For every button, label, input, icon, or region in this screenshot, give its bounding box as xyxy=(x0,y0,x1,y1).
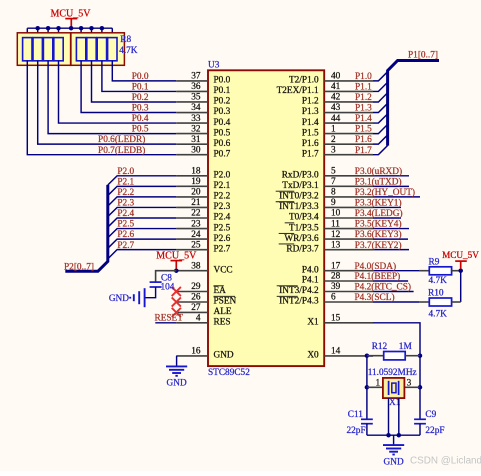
wire net P3.1 xyxy=(373,185,409,187)
wire net P3.5 xyxy=(373,228,409,230)
svg-text:RES: RES xyxy=(214,318,231,328)
svg-text:41: 41 xyxy=(331,82,341,92)
svg-text:33: 33 xyxy=(191,114,201,124)
wire net P2.4 with bus entry xyxy=(108,218,177,227)
wire GND pin to ground xyxy=(176,356,178,366)
pin 8 stub xyxy=(324,196,373,198)
svg-text:P1.1: P1.1 xyxy=(355,83,372,93)
wire net P0.3 xyxy=(81,61,176,113)
svg-text:R8: R8 xyxy=(120,35,131,45)
svg-text:P2.4: P2.4 xyxy=(117,209,134,219)
wire net P2.6 with bus entry xyxy=(108,239,177,248)
junction xyxy=(89,26,94,31)
pin 21 stub xyxy=(176,206,208,208)
svg-text:P0.6(LEDR): P0.6(LEDR) xyxy=(98,134,145,145)
wire (rail to RP element 8) xyxy=(111,28,113,37)
pin 42 stub xyxy=(324,101,373,103)
wire (pull-up bus top rail) xyxy=(27,27,112,29)
resistor R9 xyxy=(429,267,451,275)
pin 17 stub xyxy=(324,270,373,272)
pin 35 stub xyxy=(176,101,208,103)
svg-text:GND: GND xyxy=(109,294,129,304)
svg-text:21: 21 xyxy=(191,198,201,208)
svg-text:19: 19 xyxy=(191,177,201,187)
svg-text:11: 11 xyxy=(331,219,340,229)
svg-text:31: 31 xyxy=(191,135,201,145)
pin 44 stub xyxy=(324,122,373,124)
svg-text:STC89C52: STC89C52 xyxy=(208,368,250,378)
svg-text:9: 9 xyxy=(331,198,336,208)
svg-text:P1.6: P1.6 xyxy=(355,135,372,145)
wire (rail to RP element 2) xyxy=(37,28,39,37)
svg-text:P0.4: P0.4 xyxy=(132,114,149,124)
svg-text:RD/P3.7: RD/P3.7 xyxy=(286,244,319,254)
wire crystal case pin right xyxy=(398,398,400,435)
svg-text:P3.3(KEY1): P3.3(KEY1) xyxy=(355,198,402,209)
junction xyxy=(79,26,84,31)
wire net P1.0 with bus entry xyxy=(373,72,388,81)
junction (case pin left) xyxy=(386,433,391,438)
wire net P2.0 with bus entry xyxy=(108,176,177,185)
svg-text:P4.2(RTC_CS): P4.2(RTC_CS) xyxy=(355,282,412,293)
svg-text:P4.1(BEEP): P4.1(BEEP) xyxy=(355,271,401,282)
wire net P4.0(SDA) xyxy=(373,270,419,272)
svg-text:T2EX/P1.1: T2EX/P1.1 xyxy=(277,86,319,96)
wire net P1.4 with bus entry xyxy=(373,114,388,123)
svg-text:104: 104 xyxy=(161,283,175,293)
pin 39 stub xyxy=(324,291,373,293)
capacitor C11 xyxy=(361,419,373,423)
pin 2 stub xyxy=(324,143,373,145)
svg-text:36: 36 xyxy=(191,82,201,92)
pin 6 stub xyxy=(324,301,373,303)
svg-text:P0.4: P0.4 xyxy=(214,118,231,128)
svg-text:23: 23 xyxy=(191,219,201,229)
svg-text:42: 42 xyxy=(331,93,341,103)
power MCU_5V (top left) xyxy=(50,9,91,27)
pin 29 stub xyxy=(176,291,208,293)
svg-text:P3.6(KEY3): P3.6(KEY3) xyxy=(355,229,402,240)
pin 22 stub xyxy=(176,217,208,219)
wire VCC to C8 xyxy=(156,271,177,282)
ground GND (crystal) xyxy=(383,445,404,467)
svg-text:22pF: 22pF xyxy=(425,426,444,436)
svg-text:P3.4(LEDG): P3.4(LEDG) xyxy=(355,208,403,219)
svg-text:P2.5: P2.5 xyxy=(117,220,134,230)
wire net P2.3 with bus entry xyxy=(108,207,177,216)
pin 31 stub xyxy=(176,143,208,145)
junction xyxy=(56,26,61,31)
svg-text:27: 27 xyxy=(191,303,201,313)
svg-text:30: 30 xyxy=(191,145,201,155)
svg-text:P3.0(uRXD): P3.0(uRXD) xyxy=(355,166,402,177)
svg-text:16: 16 xyxy=(191,347,201,357)
pin 30 stub xyxy=(176,154,208,156)
svg-text:P0.1: P0.1 xyxy=(214,86,231,96)
svg-text:P1.2: P1.2 xyxy=(355,93,372,103)
ground GND (below chip) xyxy=(166,366,187,388)
pin 38 stub xyxy=(176,270,208,272)
pin 25 stub xyxy=(176,249,208,251)
bus P1[0..7] xyxy=(388,61,439,146)
svg-text:P1.5: P1.5 xyxy=(355,125,372,135)
svg-text:26: 26 xyxy=(191,293,201,303)
svg-text:P4.1: P4.1 xyxy=(302,276,319,286)
svg-text:5: 5 xyxy=(331,167,336,177)
wire net P3.6 xyxy=(373,238,408,240)
svg-text:P1.5: P1.5 xyxy=(302,128,319,138)
svg-text:29: 29 xyxy=(191,282,201,292)
junction (X1 node) xyxy=(418,353,423,358)
resistor R8 element 2 xyxy=(33,38,42,61)
lead R10 left xyxy=(419,301,429,303)
pin 7 stub xyxy=(324,185,373,187)
svg-text:P1.3: P1.3 xyxy=(302,107,319,117)
svg-text:P2.5: P2.5 xyxy=(214,223,231,233)
svg-text:T0/P3.4: T0/P3.4 xyxy=(289,213,319,223)
wire C8 to GND xyxy=(145,287,156,297)
pin 41 stub xyxy=(324,90,373,92)
wire X0 node down xyxy=(366,356,368,388)
svg-text:15: 15 xyxy=(331,314,341,324)
pin 5 stub xyxy=(324,175,373,177)
svg-text:VCC: VCC xyxy=(214,265,233,275)
svg-text:2: 2 xyxy=(331,135,336,145)
wire net P1.5 with bus entry xyxy=(373,124,388,133)
lead crystal pin 1 xyxy=(367,386,383,388)
wire crystal case pin left xyxy=(388,398,390,435)
svg-text:P3.1(uTXD): P3.1(uTXD) xyxy=(355,176,402,187)
svg-text:1: 1 xyxy=(376,378,381,388)
svg-text:11.0592MHz: 11.0592MHz xyxy=(368,368,417,378)
svg-text:P1.7: P1.7 xyxy=(355,146,372,156)
wire net P4.1(BEEP) xyxy=(373,280,408,282)
svg-text:1M: 1M xyxy=(399,342,412,352)
wire net P0.0 xyxy=(112,61,176,81)
svg-text:P0.6: P0.6 xyxy=(214,139,231,149)
wire X1 node down xyxy=(419,356,421,388)
lead crystal pin 3 xyxy=(404,386,420,388)
pin 14 stub xyxy=(324,355,373,357)
svg-text:28: 28 xyxy=(331,272,341,282)
svg-text:38: 38 xyxy=(191,261,201,271)
svg-text:P3.2(HY_OUT): P3.2(HY_OUT) xyxy=(355,187,415,198)
svg-text:P2.0: P2.0 xyxy=(214,171,231,181)
wire (rail to RP element 4) xyxy=(58,28,60,37)
svg-text:GND: GND xyxy=(214,351,234,361)
ground GND (sideways, at C8) xyxy=(109,288,145,307)
pin 37 stub xyxy=(176,80,208,82)
pin 4 stub xyxy=(176,322,208,324)
wire net P2.5 with bus entry xyxy=(108,229,177,238)
junction (VCC node) xyxy=(174,268,179,273)
wire X1 node to C9 xyxy=(419,387,421,419)
wire net P3.0 xyxy=(373,175,409,177)
svg-text:U3: U3 xyxy=(208,60,220,70)
pin 16 stub xyxy=(176,355,208,357)
pin 24 stub xyxy=(176,238,208,240)
wire X1 pin to crystal right node xyxy=(373,323,420,356)
junction (case pin right) xyxy=(397,433,402,438)
svg-text:P2.6: P2.6 xyxy=(117,230,134,240)
svg-text:P0.5: P0.5 xyxy=(132,125,149,135)
svg-text:P3.7(KEY2): P3.7(KEY2) xyxy=(355,240,402,251)
svg-text:P3.5(KEY4): P3.5(KEY4) xyxy=(355,219,402,230)
junction xyxy=(35,26,40,31)
wire net P1.7 with bus entry xyxy=(373,145,388,154)
wire (rail to RP element 7) xyxy=(101,28,103,37)
capacitor C8 xyxy=(150,282,162,287)
svg-text:T2/P1.0: T2/P1.0 xyxy=(289,76,319,86)
junction (X0 node) xyxy=(365,353,370,358)
pin 20 stub xyxy=(176,196,208,198)
pin 15 stub xyxy=(324,322,373,324)
svg-text:P0.0: P0.0 xyxy=(214,76,231,86)
svg-text:10: 10 xyxy=(331,209,341,219)
svg-text:35: 35 xyxy=(191,93,201,103)
svg-text:WR/P3.6: WR/P3.6 xyxy=(284,234,319,244)
resistor R10 xyxy=(429,298,451,306)
no-ERC marker X xyxy=(172,297,181,306)
wire X0 node to C11 xyxy=(366,387,368,419)
pin 12 stub xyxy=(324,238,373,240)
wire net P0.2 xyxy=(92,61,177,102)
wire C11 to rail xyxy=(366,424,368,436)
wire net P3.3 xyxy=(373,206,401,208)
svg-text:4: 4 xyxy=(196,314,201,324)
svg-text:P0.2: P0.2 xyxy=(214,97,231,107)
junction xyxy=(46,26,51,31)
resistor R8 element 3 xyxy=(43,38,52,61)
wire net P3.2 xyxy=(373,196,420,198)
svg-text:1: 1 xyxy=(331,124,336,134)
svg-text:4.7K: 4.7K xyxy=(429,309,448,319)
pin 33 stub xyxy=(176,122,208,124)
svg-text:34: 34 xyxy=(191,103,201,113)
junction xyxy=(100,26,105,31)
svg-text:3: 3 xyxy=(407,378,412,388)
pin 27 stub xyxy=(176,311,208,313)
svg-text:P1.7: P1.7 xyxy=(302,149,319,159)
svg-text:T1/P3.5: T1/P3.5 xyxy=(289,223,319,233)
svg-text:P1.4: P1.4 xyxy=(355,114,372,124)
svg-text:12: 12 xyxy=(331,230,341,240)
svg-text:P4.0(SDA): P4.0(SDA) xyxy=(355,261,397,272)
pin 1 stub xyxy=(324,133,373,135)
svg-text:39: 39 xyxy=(331,282,341,292)
lead R12 right xyxy=(405,355,420,357)
svg-text:P2.3: P2.3 xyxy=(117,199,134,209)
wire net P4.3(SCL) xyxy=(373,301,419,303)
svg-text:4.7K: 4.7K xyxy=(119,46,138,56)
svg-text:MCU_5V: MCU_5V xyxy=(442,250,479,260)
IC U3 (STC89C52 microcontroller) body xyxy=(208,70,324,366)
no-ERC marker X xyxy=(172,308,181,317)
svg-text:P0.3: P0.3 xyxy=(132,104,149,114)
pin 19 stub xyxy=(176,185,208,187)
svg-text:TxD/P3.1: TxD/P3.1 xyxy=(282,181,319,191)
wire X0 pin to crystal left node xyxy=(367,355,373,357)
svg-text:P0.5: P0.5 xyxy=(214,128,231,138)
resistor R8 element 4 xyxy=(54,38,63,61)
lead R10 right xyxy=(452,301,461,303)
svg-text:P0.3: P0.3 xyxy=(214,107,231,117)
svg-text:ALE: ALE xyxy=(214,307,232,317)
junction (power tap) xyxy=(69,26,74,31)
svg-text:P4.3(SCL): P4.3(SCL) xyxy=(355,292,395,303)
svg-text:P2.0: P2.0 xyxy=(117,167,134,177)
svg-text:20: 20 xyxy=(191,188,201,198)
pin 13 stub xyxy=(324,249,373,251)
svg-text:P2.7: P2.7 xyxy=(214,244,231,254)
resistor R8 element 7 xyxy=(97,38,106,61)
pin 3 stub xyxy=(324,154,373,156)
wire (rail to RP element 3) xyxy=(47,28,49,37)
wire net P3.7 xyxy=(373,249,409,251)
svg-text:C9: C9 xyxy=(425,410,436,420)
wire net P4.2(RTC_CS) xyxy=(373,291,414,293)
svg-text:P2.3: P2.3 xyxy=(214,202,231,212)
svg-text:40: 40 xyxy=(331,72,341,82)
svg-text:22pF: 22pF xyxy=(347,426,366,436)
wire (rail to RP element 1) xyxy=(26,28,28,37)
no-ERC marker X xyxy=(172,287,181,296)
svg-text:X0: X0 xyxy=(307,351,319,361)
svg-text:R10: R10 xyxy=(428,289,444,299)
svg-text:P0.7(LEDB): P0.7(LEDB) xyxy=(98,145,145,156)
svg-text:R9: R9 xyxy=(429,257,440,267)
pin 18 stub xyxy=(176,175,208,177)
resistor pack R8 body (left half) xyxy=(17,33,70,66)
svg-text:RxD/P3.0: RxD/P3.0 xyxy=(282,171,319,181)
wire C9 to rail xyxy=(419,424,421,436)
svg-text:P2.6: P2.6 xyxy=(214,234,231,244)
svg-text:13: 13 xyxy=(331,240,341,250)
svg-text:8: 8 xyxy=(331,188,336,198)
pin 11 stub xyxy=(324,228,373,230)
resistor pack R8 body (right half) xyxy=(71,33,125,66)
wire net RESET xyxy=(155,322,176,324)
resistor R8 element 8 xyxy=(108,38,117,61)
svg-text:18: 18 xyxy=(191,167,201,177)
svg-text:INT0/P3.2: INT0/P3.2 xyxy=(279,192,319,202)
wire net P1.3 with bus entry xyxy=(373,103,388,112)
svg-text:P2[0..7]: P2[0..7] xyxy=(64,262,94,272)
svg-text:7: 7 xyxy=(331,177,336,187)
svg-text:P2.1: P2.1 xyxy=(214,181,231,191)
svg-text:P1.2: P1.2 xyxy=(302,97,319,107)
svg-text:P0.7: P0.7 xyxy=(214,149,231,159)
svg-text:X1: X1 xyxy=(307,318,319,328)
svg-text:P1.4: P1.4 xyxy=(302,118,319,128)
svg-text:INT2/P4.3: INT2/P4.3 xyxy=(279,297,319,307)
svg-text:P0.1: P0.1 xyxy=(132,83,149,93)
svg-text:INT1/P3.3: INT1/P3.3 xyxy=(279,202,319,212)
svg-text:6: 6 xyxy=(331,293,336,303)
svg-text:32: 32 xyxy=(191,124,201,134)
svg-text:22: 22 xyxy=(191,209,201,219)
pin 28 stub xyxy=(324,280,373,282)
resistor R8 element 6 xyxy=(87,38,96,61)
wire (rail to RP element 5) xyxy=(80,28,82,37)
pin 40 stub xyxy=(324,80,373,82)
svg-text:CSDN @Licland: CSDN @Licland xyxy=(410,455,481,466)
wire net P2.2 with bus entry xyxy=(108,197,177,206)
wire net P0.1 xyxy=(102,61,176,92)
wire net P0.7 xyxy=(27,61,176,155)
wire MCU_5V to R10 xyxy=(460,271,462,302)
wire net P1.6 with bus entry xyxy=(373,135,388,144)
svg-text:GND: GND xyxy=(384,457,404,467)
junction (R9/MCU_5V) xyxy=(458,268,463,273)
svg-text:R12: R12 xyxy=(372,342,388,352)
power MCU_5V (at VCC pin) xyxy=(156,251,197,269)
svg-text:25: 25 xyxy=(191,240,201,250)
svg-text:PSEN: PSEN xyxy=(214,297,237,307)
pin 34 stub xyxy=(176,112,208,114)
svg-text:EA: EA xyxy=(214,286,227,296)
wire net P3.4 xyxy=(373,217,401,219)
bus P2[0..7] xyxy=(65,185,108,271)
svg-text:GND: GND xyxy=(167,379,187,389)
wire net P2.1 with bus entry xyxy=(108,186,177,195)
wire ground rail xyxy=(367,434,420,436)
wire net P0.5 xyxy=(48,61,176,134)
resistor R12 xyxy=(384,352,406,360)
svg-text:P2.7: P2.7 xyxy=(117,241,134,251)
svg-text:4.7K: 4.7K xyxy=(429,276,448,286)
lead R9 right xyxy=(452,270,461,272)
capacitor C9 xyxy=(414,419,426,423)
svg-text:37: 37 xyxy=(191,72,201,82)
svg-text:P2.2: P2.2 xyxy=(117,188,134,198)
wire net P0.6 xyxy=(38,61,177,144)
pin 36 stub xyxy=(176,90,208,92)
pin 9 stub xyxy=(324,206,373,208)
pin 23 stub xyxy=(176,228,208,230)
lead R12 left xyxy=(367,355,384,357)
svg-text:17: 17 xyxy=(331,261,341,271)
svg-text:P2.4: P2.4 xyxy=(214,213,231,223)
svg-text:P1.0: P1.0 xyxy=(355,72,372,82)
svg-text:3: 3 xyxy=(331,145,336,155)
wire net P2.7 with bus entry xyxy=(108,250,177,259)
crystal X1 xyxy=(383,378,405,398)
wire rail to ground xyxy=(393,435,395,445)
resistor R8 element 1 xyxy=(23,38,32,61)
svg-text:P1.6: P1.6 xyxy=(302,139,319,149)
wire net P0.4 xyxy=(59,61,177,123)
svg-text:P0.0: P0.0 xyxy=(132,72,149,82)
power MCU_5V (right) xyxy=(442,250,479,269)
lead R9 left xyxy=(419,270,429,272)
svg-text:P2.2: P2.2 xyxy=(214,192,231,202)
junction (crystal pin 1) xyxy=(365,385,370,390)
svg-text:INT3/P4.2: INT3/P4.2 xyxy=(279,286,319,296)
svg-text:P0.2: P0.2 xyxy=(132,93,149,103)
svg-text:P1.3: P1.3 xyxy=(355,104,372,114)
svg-text:P1[0..7]: P1[0..7] xyxy=(408,51,438,61)
svg-text:24: 24 xyxy=(191,230,201,240)
pin 26 stub xyxy=(176,301,208,303)
wire net P1.1 with bus entry xyxy=(373,82,388,91)
wire (rail to RP element 6) xyxy=(91,28,93,37)
svg-text:C11: C11 xyxy=(348,410,364,420)
svg-text:P2.1: P2.1 xyxy=(117,177,134,187)
svg-text:44: 44 xyxy=(331,114,341,124)
resistor R8 element 5 xyxy=(76,38,85,61)
wire net P1.2 with bus entry xyxy=(373,93,388,102)
